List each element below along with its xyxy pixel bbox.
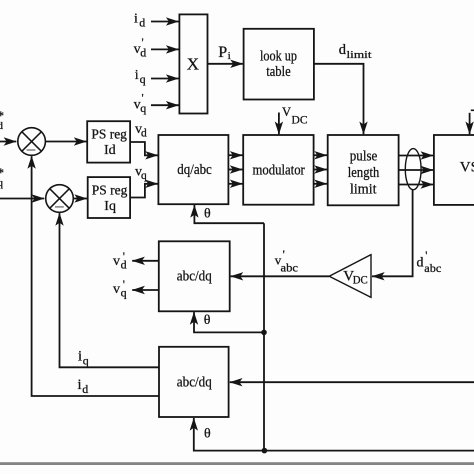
svg-text:X: X bbox=[187, 55, 199, 74]
wire theta into abc/dq (voltage) bbox=[194, 312, 264, 332]
label v_abc' bbox=[275, 247, 298, 274]
minus sign of S2 bbox=[55, 206, 64, 208]
wire input v_q' to X bbox=[151, 104, 179, 106]
wire P_i from X to look up table bbox=[208, 63, 243, 65]
wire theta into abc/dq (current) bbox=[194, 418, 264, 451]
label i_d* reference (clipped at left edge) bbox=[0, 108, 4, 132]
svg-text:abc/dq: abc/dq bbox=[177, 268, 212, 284]
svg-text:θ: θ bbox=[204, 427, 211, 442]
wire current feedback into abc/dq right bbox=[230, 381, 474, 383]
svg-text:d: d bbox=[417, 255, 424, 270]
wire S1 to PS reg Id bbox=[45, 141, 86, 143]
svg-text:Id: Id bbox=[104, 143, 116, 158]
svg-text:d: d bbox=[139, 15, 145, 29]
wire theta bottom distribution bbox=[264, 450, 474, 452]
svg-text:i: i bbox=[135, 68, 139, 83]
label PS reg Iq bbox=[92, 184, 128, 214]
label v_d' (X input) bbox=[134, 35, 147, 59]
svg-text:θ: θ bbox=[204, 206, 211, 221]
wires modulator to pulse length limit (3 phase) bbox=[314, 154, 327, 156]
svg-text:': ' bbox=[283, 247, 285, 261]
wire input v_d' to X bbox=[151, 48, 179, 50]
label fragment at top right edge bbox=[471, 109, 474, 111]
wire reference i_d* into S1 bbox=[0, 141, 16, 143]
svg-text:PS reg: PS reg bbox=[92, 184, 128, 199]
svg-text:q: q bbox=[83, 354, 89, 368]
label i_q* reference (clipped at left edge) bbox=[0, 165, 4, 189]
bottom page rule bbox=[0, 462, 474, 465]
svg-text:i: i bbox=[134, 11, 138, 26]
svg-text:i: i bbox=[228, 50, 231, 62]
label pulse length limit bbox=[348, 148, 380, 197]
svg-text:θ: θ bbox=[204, 313, 211, 328]
block VSI bbox=[434, 135, 474, 205]
block abc/dq (current) bbox=[159, 347, 229, 417]
svg-text:pulse: pulse bbox=[350, 148, 378, 164]
label look up table bbox=[260, 49, 297, 80]
svg-text:DC: DC bbox=[292, 113, 308, 127]
svg-text:abc: abc bbox=[281, 261, 299, 275]
svg-text:d: d bbox=[141, 128, 147, 140]
svg-text:q: q bbox=[140, 72, 146, 86]
wire v_q' out of abc/dq bbox=[132, 289, 159, 291]
label v_d (PS reg Id output) bbox=[135, 122, 147, 140]
svg-text:': ' bbox=[123, 249, 125, 263]
label V_DC (modulator) bbox=[282, 105, 308, 126]
label i_q (X input) bbox=[135, 68, 146, 86]
block dq/abc bbox=[158, 135, 228, 204]
svg-text:limit: limit bbox=[350, 182, 377, 198]
label P_i bbox=[218, 44, 230, 62]
junction dot theta bus lower bbox=[262, 448, 268, 454]
wire d_limit from look up table down into pulse length limit bbox=[314, 64, 364, 134]
summing junction S1 (Id) bbox=[18, 128, 46, 156]
svg-text:': ' bbox=[142, 35, 144, 49]
wire v_q from PS reg Iq to dq/abc bbox=[130, 184, 158, 198]
label v_d' (abc/dq output) bbox=[113, 249, 127, 272]
svg-text:v: v bbox=[113, 254, 120, 269]
wire v_abc' from triangle to abc/dq bbox=[231, 275, 330, 277]
wire V_DC into VSI top bbox=[469, 113, 471, 134]
svg-text:v: v bbox=[113, 282, 120, 297]
label V_DC (gain triangle) bbox=[343, 268, 368, 286]
svg-text:*: * bbox=[0, 108, 4, 123]
minus sign of S1 bbox=[27, 149, 36, 151]
svg-text:limit: limit bbox=[347, 49, 372, 61]
wire input i_q to X bbox=[151, 78, 179, 80]
label d_limit bbox=[339, 42, 372, 61]
wire v_d' out of abc/dq bbox=[132, 260, 159, 262]
wire input i_d to X bbox=[151, 21, 179, 23]
wire i_q feedback to S2 bbox=[60, 213, 160, 367]
label v_q' (abc/dq output) bbox=[113, 277, 127, 300]
wire V_DC into modulator top bbox=[278, 113, 280, 135]
label i_d (X input) bbox=[134, 11, 145, 29]
svg-text:V: V bbox=[282, 105, 291, 119]
wire v_d from PS reg Id to dq/abc bbox=[130, 142, 158, 155]
label v_q (PS reg Iq output) bbox=[135, 164, 147, 182]
svg-text:look up: look up bbox=[260, 49, 297, 65]
svg-text:q: q bbox=[141, 170, 147, 182]
svg-text:Iq: Iq bbox=[104, 199, 116, 214]
svg-text:DC: DC bbox=[353, 274, 368, 286]
wires dq/abc to modulator (3 phase) bbox=[228, 154, 242, 156]
summing junction S2 (Iq) bbox=[46, 185, 74, 213]
svg-text:': ' bbox=[142, 91, 144, 105]
wires pulse length limit to VSI (3 phase) bbox=[399, 155, 434, 157]
svg-text:i: i bbox=[78, 377, 82, 393]
junction dot theta bus upper bbox=[261, 330, 267, 336]
cable bundle ellipse bbox=[405, 149, 421, 190]
block look up table bbox=[244, 29, 314, 100]
label d_abc' bbox=[417, 248, 442, 275]
svg-text:PS reg: PS reg bbox=[91, 128, 127, 143]
wire theta into dq/abc bbox=[194, 205, 264, 223]
svg-text:P: P bbox=[218, 44, 227, 61]
gain triangle V_DC bbox=[329, 255, 371, 298]
svg-text:d: d bbox=[82, 382, 88, 396]
svg-text:modulator: modulator bbox=[253, 162, 305, 178]
theta bus vertical bbox=[263, 223, 265, 450]
wire S2 to PS reg Iq bbox=[73, 198, 87, 200]
svg-text:VSI: VSI bbox=[460, 160, 474, 176]
svg-text:length: length bbox=[348, 165, 380, 181]
svg-text:dq/abc: dq/abc bbox=[177, 162, 212, 178]
wire reference i_q* into S2 bbox=[0, 198, 44, 200]
svg-text:': ' bbox=[425, 248, 427, 262]
block abc/dq (voltage) bbox=[159, 241, 230, 311]
block modulator bbox=[243, 135, 313, 205]
svg-text:abc: abc bbox=[424, 261, 441, 275]
svg-text:table: table bbox=[266, 64, 291, 80]
block pulse length limit bbox=[328, 135, 399, 205]
label i_d (feedback wire) bbox=[78, 377, 89, 396]
label v_q' (X input) bbox=[134, 91, 147, 115]
label i_q (feedback wire) bbox=[78, 348, 89, 367]
block PS reg Iq bbox=[88, 177, 130, 218]
svg-text:i: i bbox=[78, 348, 82, 364]
label PS reg Id bbox=[91, 128, 127, 158]
svg-text:*: * bbox=[0, 165, 4, 180]
block PS reg Id bbox=[87, 121, 130, 162]
wire d_abc' from ellipse down to gain triangle bbox=[372, 190, 413, 277]
wire i_d feedback to S1 bbox=[32, 156, 159, 396]
svg-text:abc/dq: abc/dq bbox=[177, 374, 212, 390]
svg-text:': ' bbox=[123, 277, 125, 291]
block X (multiplier) U1 bbox=[179, 14, 207, 113]
